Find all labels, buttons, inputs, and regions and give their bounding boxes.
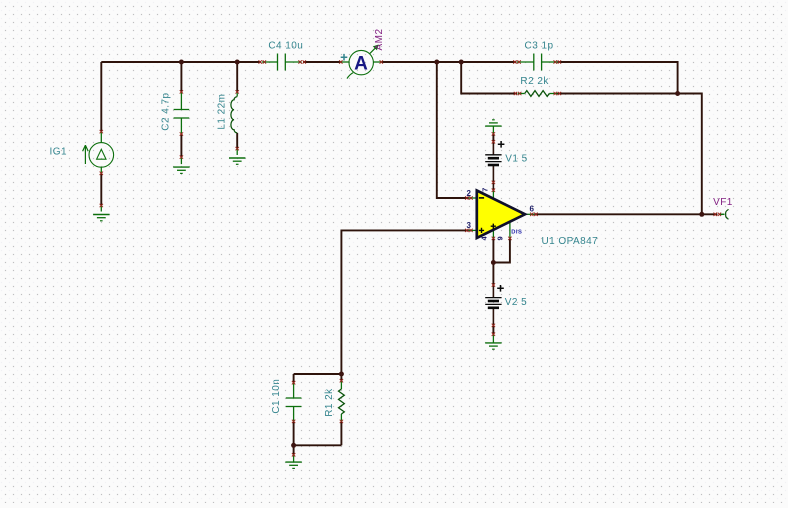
svg-text:2: 2 xyxy=(466,189,471,198)
svg-text:7: 7 xyxy=(481,187,490,192)
svg-text:V2 5: V2 5 xyxy=(505,297,527,308)
svg-text:A: A xyxy=(354,53,368,74)
svg-text:C1 10n: C1 10n xyxy=(271,379,282,414)
svg-text:AM2: AM2 xyxy=(374,29,385,51)
svg-text:9: 9 xyxy=(496,236,505,241)
svg-text:R2 2k: R2 2k xyxy=(520,76,549,87)
svg-text:3: 3 xyxy=(466,221,471,230)
svg-text:L1 22m: L1 22m xyxy=(217,94,228,130)
svg-text:VF1: VF1 xyxy=(713,197,733,208)
svg-text:R1 2k: R1 2k xyxy=(324,388,335,417)
svg-text:V1 5: V1 5 xyxy=(505,154,527,165)
svg-text:4: 4 xyxy=(480,236,489,241)
svg-text:6: 6 xyxy=(529,205,534,214)
svg-text:IG1: IG1 xyxy=(50,146,67,157)
svg-text:C3 1p: C3 1p xyxy=(525,41,554,52)
svg-text:DIS: DIS xyxy=(511,229,522,235)
svg-text:U1 OPA847: U1 OPA847 xyxy=(542,236,599,247)
svg-text:C4 10u: C4 10u xyxy=(268,41,303,52)
svg-text:C2 4.7p: C2 4.7p xyxy=(161,93,172,131)
